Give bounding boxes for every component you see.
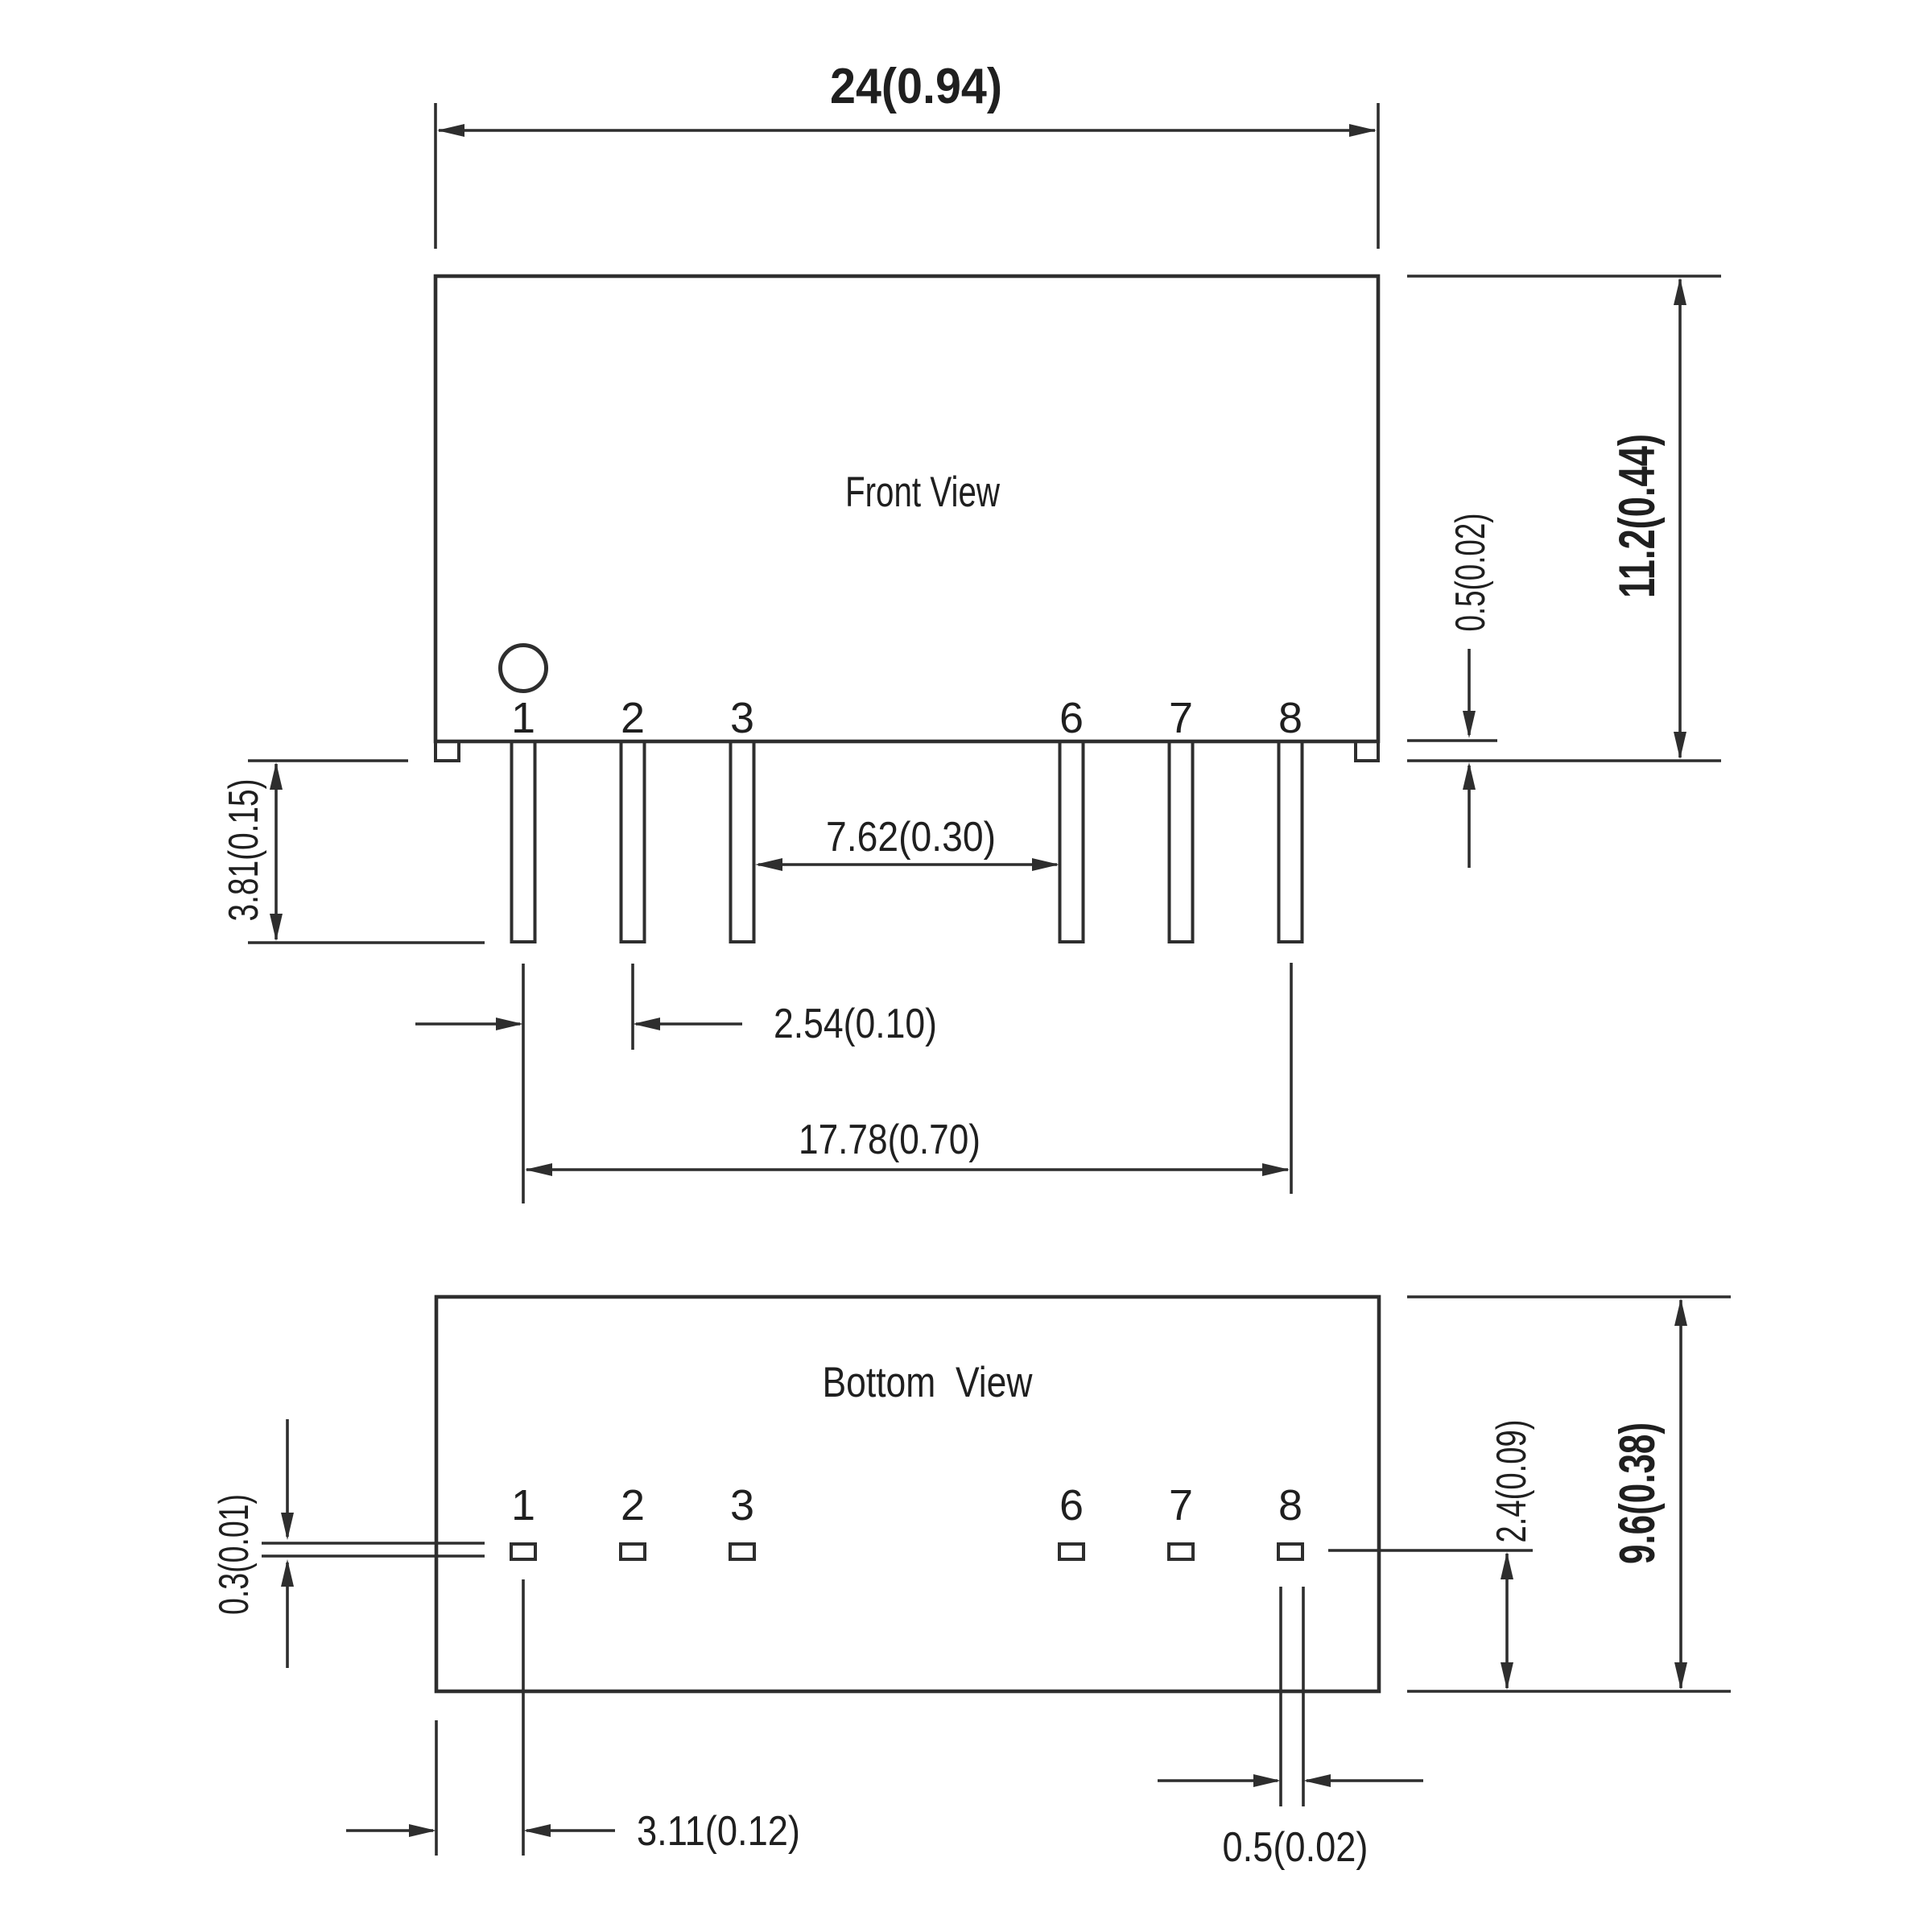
svg-text:7: 7 (1169, 694, 1193, 742)
svg-text:Bottom View: Bottom View (823, 1359, 1034, 1406)
svg-text:1: 1 (511, 694, 535, 742)
svg-text:6: 6 (1059, 1481, 1084, 1529)
svg-text:8: 8 (1278, 1481, 1302, 1529)
svg-text:2: 2 (621, 1481, 645, 1529)
svg-text:7: 7 (1169, 1481, 1193, 1529)
svg-text:8: 8 (1278, 694, 1302, 742)
svg-text:3.81(0.15): 3.81(0.15) (221, 779, 267, 922)
svg-text:Front View: Front View (845, 469, 1001, 516)
svg-text:3: 3 (730, 1481, 754, 1529)
svg-text:0.3(0.01): 0.3(0.01) (211, 1494, 258, 1615)
svg-text:17.78(0.70): 17.78(0.70) (799, 1117, 980, 1163)
svg-text:0.5(0.02): 0.5(0.02) (1223, 1824, 1368, 1871)
svg-text:11.2(0.44): 11.2(0.44) (1609, 434, 1666, 598)
svg-text:1: 1 (511, 1481, 535, 1529)
svg-text:3: 3 (730, 694, 754, 742)
svg-text:0.5(0.02): 0.5(0.02) (1447, 514, 1494, 632)
svg-text:24(0.94): 24(0.94) (830, 59, 1002, 114)
svg-text:3.11(0.12): 3.11(0.12) (637, 1808, 800, 1855)
svg-text:6: 6 (1059, 694, 1084, 742)
svg-text:2.4(0.09): 2.4(0.09) (1488, 1420, 1535, 1543)
svg-text:9.6(0.38): 9.6(0.38) (1610, 1422, 1666, 1564)
svg-text:7.62(0.30): 7.62(0.30) (826, 814, 996, 861)
svg-text:2.54(0.10): 2.54(0.10) (774, 1001, 937, 1047)
svg-text:2: 2 (621, 694, 645, 742)
